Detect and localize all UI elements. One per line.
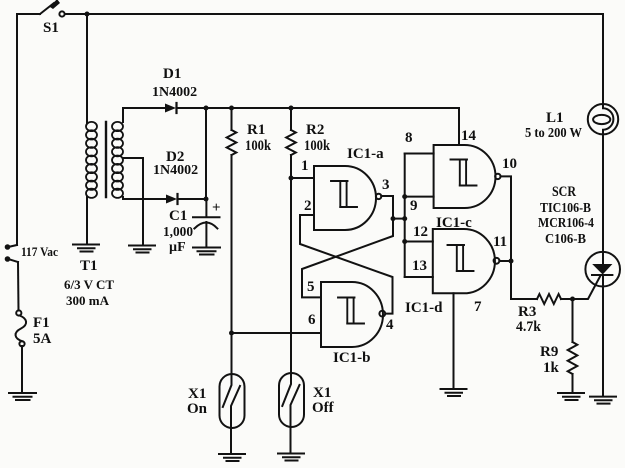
op-amp gate IC1-d (433, 229, 495, 293)
svg-text:11: 11 (493, 234, 507, 250)
wire to R3 (511, 261, 537, 299)
svg-text:L1: L1 (546, 110, 564, 126)
resistor R3 4.7k (537, 294, 561, 304)
wire output 10 (501, 176, 512, 261)
bubble IC1-a output (376, 194, 381, 199)
svg-text:C106-B: C106-B (545, 232, 586, 247)
svg-text:1k: 1k (543, 360, 560, 376)
svg-text:10: 10 (502, 156, 517, 172)
svg-text:6: 6 (308, 312, 316, 328)
wire R2 bottom to X1 Off (290, 155, 292, 373)
svg-text:7: 7 (474, 299, 482, 315)
wire secondary top to rail (123, 108, 165, 122)
bubble IC1-d output (494, 258, 500, 264)
hysteresis glyph IC1-c (451, 160, 477, 186)
svg-text:1,000: 1,000 (163, 225, 193, 240)
wire to transformer primary (86, 14, 88, 123)
node bus output tee (402, 216, 407, 221)
op-amp gate IC1-b (321, 282, 383, 347)
node junction top rail (85, 12, 90, 17)
wire pin 14 (458, 108, 460, 145)
svg-text:6/3 V CT: 6/3 V CT (64, 277, 114, 292)
hysteresis glyph IC1-a (331, 181, 357, 207)
svg-text:R9: R9 (540, 344, 558, 360)
wire lamp feed (602, 14, 604, 104)
node output3 tee (391, 216, 396, 221)
svg-text:IC1-d: IC1-d (405, 300, 443, 316)
bubble IC1-c output (495, 174, 500, 179)
wire rectifier output vertical (205, 108, 207, 199)
node plug lower terminal (5, 256, 18, 262)
svg-text:TIC106-B: TIC106-B (540, 201, 591, 216)
ground under C1 (193, 248, 220, 255)
wire R9 to ground (572, 374, 574, 392)
node R2 top (289, 106, 294, 111)
wire left vertical to plug (16, 14, 18, 245)
diode D2 (166, 194, 178, 204)
wire left feed to switch (17, 13, 40, 15)
svg-text:117 Vac: 117 Vac (21, 244, 58, 259)
transformer T1 core (105, 122, 107, 197)
ground under IC1-d (441, 389, 467, 396)
svg-text:14: 14 (461, 128, 477, 144)
wire D2 cathode to C1 node (178, 198, 206, 200)
wire jog to gate bus (393, 218, 405, 220)
wire pin 8 (405, 153, 434, 155)
svg-text:S1: S1 (43, 20, 59, 36)
svg-text:12: 12 (413, 224, 428, 240)
ground under F1 (9, 393, 36, 400)
svg-text:On: On (187, 401, 208, 417)
svg-text:X1: X1 (313, 385, 331, 401)
wire X1 On to ground (230, 428, 232, 453)
svg-text:2: 2 (304, 198, 312, 214)
svg-text:MCR106-4: MCR106-4 (538, 216, 594, 231)
wire pin 9 (405, 196, 434, 198)
wire secondary bottom to D2 (123, 197, 166, 199)
wire pin 13 (405, 276, 433, 278)
switch S1 (40, 0, 65, 17)
op-amp gate IC1-c (434, 145, 496, 208)
node R3/R9/gate junction (570, 297, 575, 302)
transformer T1 primary winding (86, 122, 97, 198)
ground under X1 On (219, 454, 245, 461)
wire pin 1 (291, 177, 314, 179)
wire pin 2 coupling to output 4 (300, 215, 393, 314)
wire lamp to SCR (602, 134, 604, 252)
svg-text:4: 4 (386, 317, 394, 333)
svg-text:SCR: SCR (552, 184, 576, 200)
node pin6 junction (229, 331, 234, 336)
svg-text:Off: Off (312, 400, 335, 416)
svg-text:100k: 100k (304, 138, 331, 154)
svg-text:5A: 5A (33, 331, 52, 347)
wire plug to fuse (17, 262, 20, 311)
wire R9 top lead (572, 299, 574, 342)
wire primary bottom to ground (86, 197, 88, 243)
svg-text:100k: 100k (245, 138, 272, 154)
node outputs junction (509, 259, 514, 264)
svg-text:5 to 200 W: 5 to 200 W (525, 126, 582, 141)
capacitor C1 (193, 199, 220, 246)
svg-text:T1: T1 (80, 258, 98, 274)
node pin1 junction (289, 176, 294, 181)
svg-text:300 mA: 300 mA (66, 293, 110, 308)
svg-text:1: 1 (301, 158, 309, 174)
svg-text:IC1-b: IC1-b (333, 350, 371, 366)
ground under R9 (558, 393, 584, 400)
node pin 12 tee (402, 239, 407, 244)
node plug upper terminal (5, 244, 17, 250)
touch plate X1 On (220, 374, 245, 428)
svg-text:F1: F1 (33, 315, 50, 331)
ground under SCR (590, 397, 616, 404)
lamp L1 (588, 104, 618, 134)
diode D1 (165, 103, 177, 113)
SCR (585, 252, 620, 396)
node pin 9 tee (402, 194, 407, 199)
fuse F1 (16, 310, 27, 346)
node R1 top (229, 106, 234, 111)
wire R3 to junction (561, 298, 573, 300)
resistor R2 100k (286, 130, 296, 155)
svg-text:D1: D1 (163, 66, 181, 82)
svg-text:X1: X1 (188, 386, 206, 402)
svg-text:R2: R2 (306, 122, 324, 138)
svg-text:R3: R3 (518, 304, 536, 320)
svg-text:R1: R1 (247, 122, 265, 138)
wire V+ rail (178, 107, 460, 109)
transformer T1 secondary winding (112, 122, 123, 198)
wire top rail (65, 13, 603, 15)
wire fuse to ground (21, 346, 23, 392)
wire SCR gate lead (573, 277, 601, 300)
svg-text:13: 13 (412, 258, 427, 274)
bubble IC1-b output (379, 311, 385, 317)
hysteresis glyph IC1-b (338, 298, 364, 324)
wire output 11 (499, 260, 511, 262)
wire output 3 coupling to pin 5 (302, 196, 393, 297)
svg-text:9: 9 (410, 198, 418, 214)
svg-text:5: 5 (307, 279, 315, 295)
resistor R1 100k (227, 130, 237, 155)
wire R2 top lead (290, 108, 292, 130)
ground under X1 Off (278, 454, 304, 461)
svg-text:C1: C1 (169, 208, 187, 224)
svg-text:1N4002: 1N4002 (152, 85, 197, 100)
wire pin 6 (232, 332, 322, 334)
resistor R9 1k (568, 342, 578, 374)
wire gate bus vertical (404, 154, 406, 278)
svg-text:1N4002: 1N4002 (153, 163, 198, 178)
node C1 junction (204, 197, 209, 202)
wire pin 7 to ground (453, 293, 455, 388)
svg-text:3: 3 (382, 177, 390, 193)
wire R1 bottom to X1 On (231, 155, 233, 374)
svg-text:µF: µF (169, 240, 186, 255)
svg-text:IC1-a: IC1-a (347, 146, 384, 162)
ground under T1 primary (73, 245, 99, 252)
wire R1 top lead (231, 108, 233, 130)
svg-text:8: 8 (405, 130, 413, 146)
wire pin 12 (405, 241, 433, 243)
node D1 junction (204, 106, 209, 111)
op-amp gate IC1-a (314, 166, 376, 230)
svg-text:4.7k: 4.7k (516, 319, 542, 335)
svg-text:+: + (212, 200, 221, 216)
wire X1 Off to ground (290, 427, 292, 452)
ground center tap (129, 246, 155, 253)
wire secondary center tap (123, 158, 143, 244)
touch plate X1 Off (279, 373, 304, 427)
hysteresis glyph IC1-d (448, 245, 474, 271)
